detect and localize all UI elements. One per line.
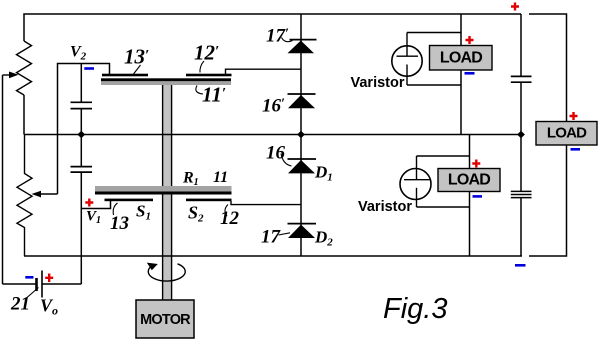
wire bottom bus [24, 255, 522, 257]
wiper arrow of upper potentiometer [3, 72, 19, 79]
contact bar S2/12 [186, 199, 232, 202]
polarity + above lower LOAD [472, 160, 480, 168]
lower LOAD branch wire [469, 135, 471, 257]
svg-text:LOAD: LOAD [448, 172, 490, 189]
diode 16 / D1 [288, 159, 317, 173]
label 13 with leader [110, 203, 129, 234]
wire top bus [24, 14, 521, 41]
label 16 with leader [266, 143, 292, 167]
label 17' with leader [266, 26, 293, 47]
wire cap to mid bus [80, 109, 82, 135]
wire mid bus to cap2 [80, 135, 82, 167]
upper LOAD branch wire [460, 14, 462, 135]
LOAD box (lower) [438, 169, 500, 192]
svg-text:21: 21 [10, 294, 30, 315]
wire mid bus [24, 134, 521, 136]
label 17 with leader [261, 227, 290, 248]
capacitor C-lower-left [71, 167, 93, 173]
polarity + above upper LOAD [466, 36, 474, 44]
wire top feed to right LOAD [529, 14, 567, 122]
svg-text:17: 17 [261, 227, 282, 248]
wire v2-to-wiper2 [57, 135, 59, 195]
diode 16' [288, 94, 316, 108]
LOAD box (upper) [430, 46, 493, 71]
svg-text:16: 16 [266, 143, 286, 164]
capacitor C-upper-left [71, 102, 93, 108]
junction dot at cap column / mid bus [77, 131, 85, 139]
wire pot1 bottom to mid bus [23, 95, 25, 135]
svg-text:11: 11 [213, 169, 228, 186]
label 21 with leader [10, 288, 39, 315]
wire left rail [2, 75, 4, 284]
polarity - near V2 [84, 67, 94, 70]
contact bar 13' [102, 74, 148, 77]
motor shaft [163, 85, 172, 300]
battery 21 [37, 271, 43, 298]
diode 17' [288, 40, 317, 54]
svg-text:LOAD: LOAD [440, 50, 482, 67]
label 12' with leader [194, 41, 219, 73]
node V2 wiring [58, 64, 110, 135]
label 11' with leader [196, 83, 226, 107]
label 13' with leader [124, 45, 149, 75]
right capacitor column [520, 14, 522, 256]
polarity - bottom right [515, 264, 526, 267]
polarity + top right [511, 3, 519, 11]
capacitor C-right-upper [511, 76, 532, 82]
wire V1 tap [81, 201, 110, 209]
commutator plate 11' (top) [101, 78, 231, 85]
diode 17 / D2 [288, 224, 317, 238]
varistor (upper) [392, 33, 461, 86]
svg-text:LOAD: LOAD [547, 125, 587, 142]
diode column wire [300, 14, 302, 256]
label 12 with leader [220, 205, 240, 230]
wire battery loop [3, 283, 37, 285]
contact bar 12' [186, 74, 232, 77]
wire S2/12 to diode column [231, 201, 301, 205]
wiper arrow of lower potentiometer [32, 191, 58, 198]
contact bar 13/S1 [105, 199, 154, 202]
junction dot at diode column / mid bus [297, 131, 305, 139]
svg-text:12: 12 [220, 208, 240, 229]
polarity + above right LOAD [570, 112, 578, 120]
wire cap leg upper [80, 64, 82, 103]
resistor: upper potentiometer [17, 41, 32, 95]
wire battery plus to bottom bus [42, 283, 81, 285]
capacitor C-right-lower [511, 191, 532, 197]
svg-text:Varistor: Varistor [351, 75, 405, 91]
polarity - battery [25, 276, 33, 279]
polarity - below right LOAD [571, 148, 581, 151]
polarity - below upper LOAD [465, 72, 475, 75]
polarity - below lower LOAD [473, 195, 483, 198]
wire bottom feed to right LOAD [529, 145, 567, 256]
svg-text:Fig.3: Fig.3 [383, 293, 447, 325]
polarity + near V1 [85, 199, 93, 207]
svg-text:Varistor: Varistor [358, 199, 412, 215]
LOAD box (right) [536, 122, 597, 146]
varistor (lower) [400, 156, 470, 207]
commutator plate 11 (bottom) [95, 186, 232, 195]
rotation arrow around shaft [147, 263, 185, 281]
junction dot right / mid bus [517, 131, 525, 139]
polarity + battery [45, 274, 53, 283]
svg-text:13: 13 [110, 213, 129, 234]
MOTOR box [136, 300, 194, 338]
wire cap2 down to battery wire [80, 172, 82, 284]
resistor: lower potentiometer [17, 135, 32, 257]
wire 12' to diode column [226, 69, 302, 74]
svg-text:MOTOR: MOTOR [140, 312, 191, 328]
